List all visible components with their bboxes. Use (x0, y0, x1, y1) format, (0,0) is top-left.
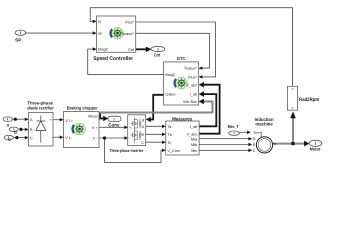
svg-text:Motor: Motor (310, 147, 321, 152)
svg-text:V -: V - (93, 137, 99, 141)
svg-text:SP: SP (15, 37, 21, 42)
svg-text:V L+: V L+ (65, 119, 74, 123)
svg-text:MagC: MagC (165, 73, 175, 77)
svg-text:C: C (253, 149, 256, 153)
svg-text:C: C (141, 141, 144, 145)
svg-text:V L-: V L- (65, 136, 73, 140)
svg-text:Mtb: Mtb (191, 143, 197, 147)
svg-text:Ctrl: Ctrl (154, 52, 161, 57)
svg-text:MagC: MagC (98, 48, 108, 52)
svg-text:Braking chopper: Braking chopper (67, 105, 98, 110)
svg-text:Gates: Gates (165, 93, 175, 97)
svg-text:Flux*: Flux* (188, 76, 197, 80)
svg-text:V_Com: V_Com (167, 149, 180, 153)
svg-text:N: N (98, 20, 101, 24)
svg-text:B: B (14, 130, 17, 135)
svg-text:C: C (8, 137, 11, 142)
svg-text:I_ab: I_ab (190, 93, 197, 97)
svg-text:I_ab: I_ab (190, 125, 197, 129)
svg-text:Speed Controller: Speed Controller (93, 56, 133, 62)
svg-text:Tb: Tb (167, 133, 171, 137)
svg-text:A: A (253, 137, 256, 141)
svg-text:Conv: Conv (108, 122, 120, 127)
svg-text:Measures: Measures (172, 116, 192, 122)
svg-text:C: C (30, 136, 33, 140)
svg-text:V +: V + (92, 126, 99, 130)
svg-text:DTC: DTC (177, 56, 186, 61)
svg-text:2: 2 (113, 118, 115, 122)
svg-text:B: B (253, 143, 256, 147)
svg-text:V_abc: V_abc (186, 83, 197, 87)
svg-text:Rad2Rpm: Rad2Rpm (299, 97, 320, 103)
svg-text:Torque*: Torque* (121, 32, 135, 36)
svg-text:Ctrl: Ctrl (128, 48, 134, 52)
svg-text:g: g (142, 118, 144, 122)
svg-text:Three-phase inverter: Three-phase inverter (110, 148, 144, 153)
svg-text:Mta: Mta (191, 137, 198, 141)
svg-text:diode rectifier: diode rectifier (27, 106, 54, 111)
svg-text:Tm: Tm (253, 131, 258, 135)
svg-text:A: A (6, 122, 9, 127)
svg-text:Flux*: Flux* (125, 21, 134, 25)
svg-text:Mec_T: Mec_T (228, 124, 240, 129)
svg-text:V_abc: V_abc (187, 132, 198, 136)
svg-text:Tc: Tc (167, 141, 171, 145)
svg-text:Vdc Bus: Vdc Bus (183, 100, 197, 104)
svg-text:machine: machine (255, 122, 273, 127)
svg-text:Torque*: Torque* (184, 67, 198, 71)
svg-text:N*: N* (98, 32, 103, 36)
svg-text:m: m (273, 142, 276, 146)
svg-text:Mtc: Mtc (191, 149, 197, 153)
svg-text:Meas: Meas (88, 115, 97, 119)
